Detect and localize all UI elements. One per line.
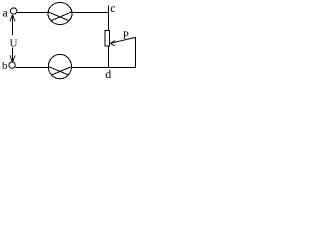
svg-text:c: c: [110, 1, 115, 15]
lamp L1 (top): [48, 3, 72, 25]
svg-text:a: a: [2, 5, 8, 19]
wire b to lamp L2: [15, 67, 48, 69]
wiper arrow of rheostat: [110, 37, 135, 45]
svg-text:b: b: [2, 60, 8, 72]
wire lamp L1 to node c: [72, 12, 109, 14]
node c wire (vertical): [108, 6, 110, 31]
wire a to lamp L1: [17, 12, 48, 14]
voltage arrow U lower segment (arrowhead down toward b): [10, 48, 15, 62]
wire bottom (d to right corner and lamp L2): [71, 67, 136, 69]
terminal b: [9, 62, 15, 68]
svg-text:P: P: [123, 29, 129, 41]
wire rheostat bottom to node d: [108, 46, 110, 68]
voltage arrow U upper segment (arrowhead up toward a): [10, 15, 15, 35]
lamp L2 (bottom): [48, 54, 71, 78]
svg-text:U: U: [10, 37, 18, 49]
wire right vertical (wiper to bottom): [135, 37, 137, 68]
svg-text:d: d: [105, 67, 111, 81]
rheostat P body: [105, 31, 110, 47]
terminal a: [11, 8, 17, 14]
